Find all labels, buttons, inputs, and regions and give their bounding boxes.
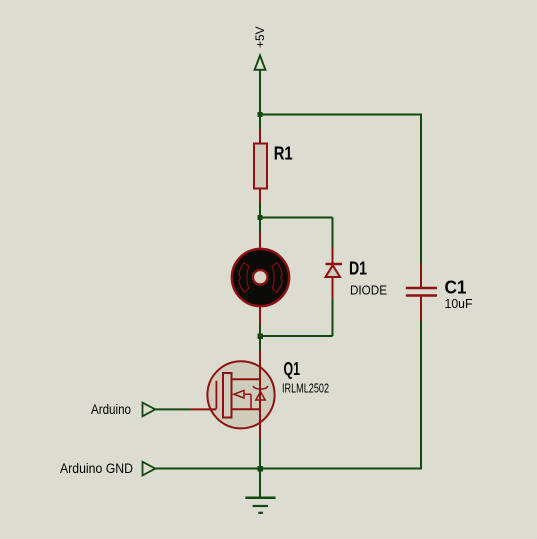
wire: R1 pin to node B <box>259 203 261 218</box>
Q1 channel bar <box>223 373 232 418</box>
svg-text:Arduino GND: Arduino GND <box>60 461 133 476</box>
svg-text:10uF: 10uF <box>445 296 473 311</box>
Q1 drain/source rail <box>259 351 261 439</box>
node D (ground junction) <box>258 466 264 472</box>
wire: node A to C1 top corner (horizontal) <box>260 114 422 116</box>
svg-text:+5V: +5V <box>253 27 267 49</box>
Q1 body diode <box>253 386 268 389</box>
ground <box>245 498 275 513</box>
wire: D1 bottom to node C (horizontal) <box>260 335 333 337</box>
Q1 drain link <box>232 378 261 380</box>
wire: C1 branch vertical (top) <box>420 115 422 264</box>
wire: C1 branch vertical (bottom) <box>420 321 422 469</box>
diode D1 <box>326 247 388 299</box>
svg-text:R1: R1 <box>274 143 293 163</box>
Q1 substrate arrow <box>234 390 244 398</box>
Q1 gate line <box>215 381 217 409</box>
wire: motor pin to node C <box>259 325 261 336</box>
node C (motor / D1 / Q1 junction) <box>258 334 264 340</box>
power +5V <box>253 27 267 70</box>
svg-text:Arduino: Arduino <box>91 402 131 417</box>
svg-text:D1: D1 <box>349 259 367 279</box>
svg-text:C1: C1 <box>445 278 467 298</box>
terminal Arduino GND <box>60 461 155 476</box>
wire: Q1 source to node D <box>259 439 261 469</box>
svg-text:DIODE: DIODE <box>350 283 387 298</box>
wire: node C to Q1 drain <box>259 336 261 351</box>
wire: Arduino GND to C1 bottom (horizontal) <box>155 468 422 470</box>
wire: +5V arrow to node A <box>259 70 261 115</box>
transistor Q1 <box>190 351 329 439</box>
node A (top junction) <box>258 112 263 117</box>
wire: Arduino terminal to Q1 gate <box>155 408 190 410</box>
node B (R1 / motor / D1 junction) <box>258 215 263 220</box>
capacitor C1 <box>406 263 473 321</box>
Q1 gate pin <box>190 408 216 410</box>
resistor R1 <box>254 130 293 203</box>
wire: D1 bottom vertical <box>332 299 334 336</box>
svg-text:Q1: Q1 <box>284 359 301 379</box>
wire: node B to D1 top (horizontal) <box>260 217 333 219</box>
wire: D1 top vertical <box>332 218 334 248</box>
wire: node B to motor pin <box>259 218 261 233</box>
svg-text:IRLML2502: IRLML2502 <box>282 381 329 396</box>
wire: node D to ground <box>259 469 261 498</box>
motor left brush <box>239 263 249 293</box>
wire: node A down to R1 pin <box>259 115 261 130</box>
motor right brush <box>272 263 282 293</box>
terminal Arduino <box>91 402 155 417</box>
motor <box>232 233 289 326</box>
Q1 source link <box>232 408 261 410</box>
motor shaft <box>253 270 268 285</box>
